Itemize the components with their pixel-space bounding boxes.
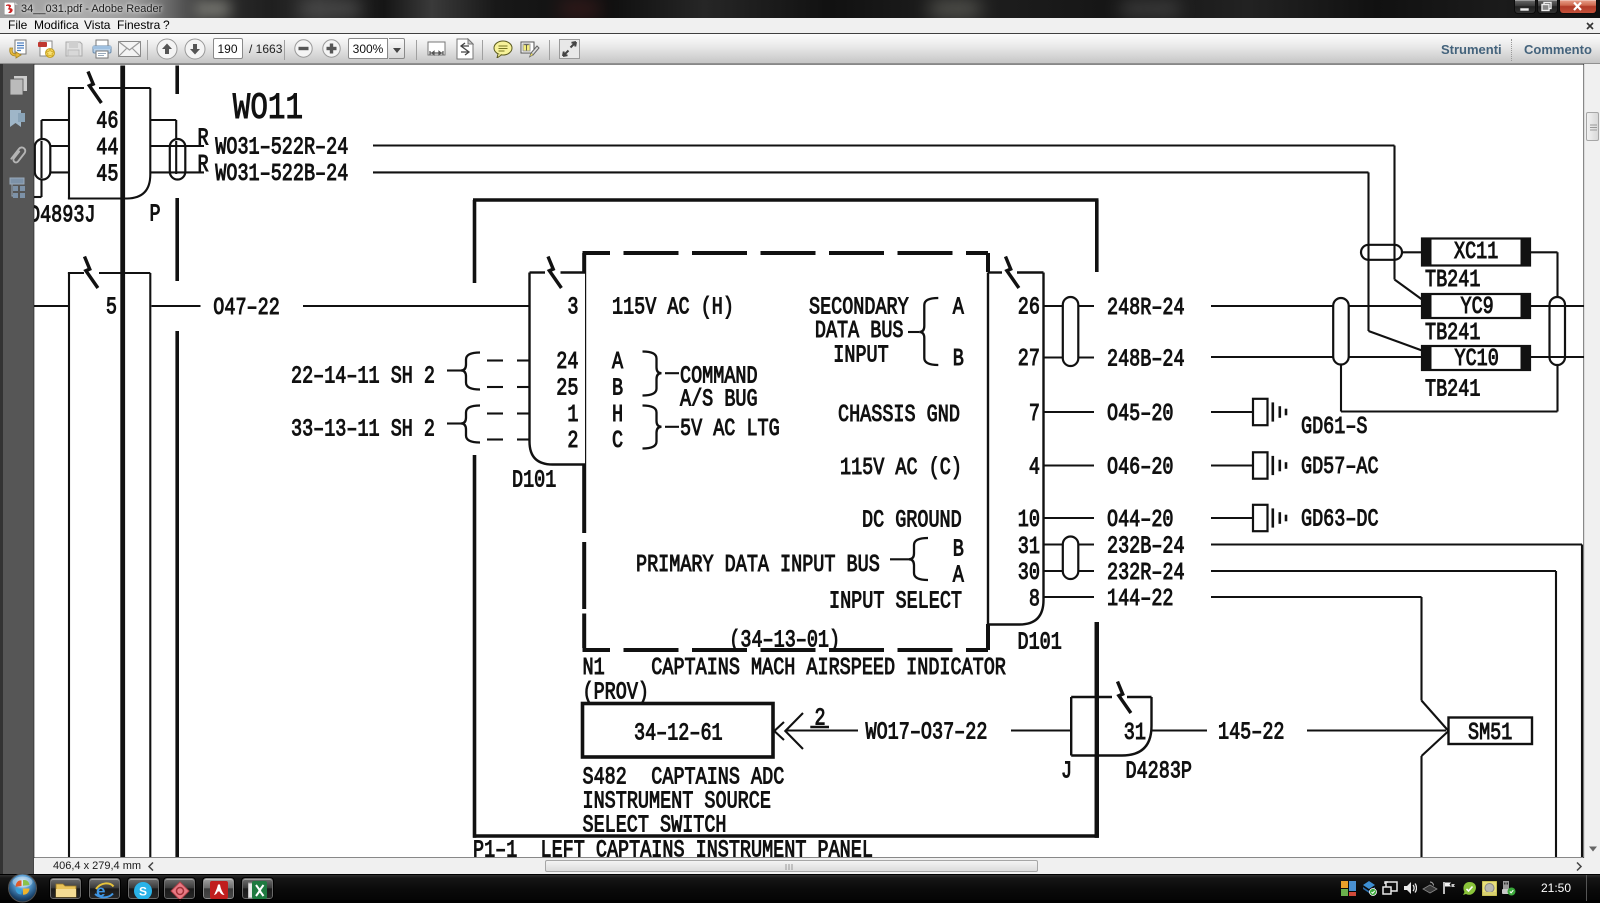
svg-text:46: 46 xyxy=(96,108,118,135)
svg-text:248R–24: 248R–24 xyxy=(1107,295,1185,322)
svg-text:34–12–61: 34–12–61 xyxy=(634,721,723,748)
svg-text:S: S xyxy=(139,885,147,899)
svg-text:DATA BUS: DATA BUS xyxy=(815,318,904,345)
svg-text:B: B xyxy=(953,346,964,373)
svg-text:A/S BUG: A/S BUG xyxy=(680,386,758,413)
svg-text:1: 1 xyxy=(567,402,578,429)
svg-text:7: 7 xyxy=(1029,401,1040,428)
svg-text:A: A xyxy=(612,349,624,376)
svg-text:PRIMARY DATA INPUT BUS: PRIMARY DATA INPUT BUS xyxy=(636,552,880,579)
svg-text:TB241: TB241 xyxy=(1425,376,1480,403)
svg-text:YC10: YC10 xyxy=(1455,346,1499,373)
svg-text:GD57–AC: GD57–AC xyxy=(1301,454,1379,481)
svg-text:D4283P: D4283P xyxy=(1126,759,1193,786)
svg-text:WO31–522B–24: WO31–522B–24 xyxy=(215,161,348,188)
svg-text:INPUT: INPUT xyxy=(833,343,888,370)
svg-text:27: 27 xyxy=(1018,346,1040,373)
svg-text:P: P xyxy=(150,201,161,228)
svg-text:SELECT SWITCH: SELECT SWITCH xyxy=(583,813,727,840)
svg-text:25: 25 xyxy=(556,376,578,403)
svg-text:O45–20: O45–20 xyxy=(1107,401,1174,428)
svg-text:248B–24: 248B–24 xyxy=(1107,347,1185,374)
svg-text:(34–13–01): (34–13–01) xyxy=(729,628,840,655)
svg-text:XC11: XC11 xyxy=(1454,239,1498,266)
svg-text:CAPTAINS MACH AIRSPEED INDICAT: CAPTAINS MACH AIRSPEED INDICATOR xyxy=(651,655,1006,682)
svg-text:A: A xyxy=(953,295,965,322)
svg-text:22–14–11 SH 2: 22–14–11 SH 2 xyxy=(291,364,435,391)
svg-text:TB241: TB241 xyxy=(1425,320,1480,347)
svg-text:O44–20: O44–20 xyxy=(1107,507,1174,534)
svg-text:D101: D101 xyxy=(512,468,556,495)
svg-text:10: 10 xyxy=(1018,507,1040,534)
svg-text:3: 3 xyxy=(567,295,578,322)
svg-text:SM51: SM51 xyxy=(1468,720,1512,747)
svg-text:INPUT SELECT: INPUT SELECT xyxy=(829,589,962,616)
svg-text:2: 2 xyxy=(815,706,826,733)
svg-text:CAPTAINS ADC: CAPTAINS ADC xyxy=(651,764,784,791)
svg-text:144–22: 144–22 xyxy=(1107,586,1174,613)
svg-text:T: T xyxy=(524,44,529,53)
svg-text:B: B xyxy=(953,537,964,564)
svg-text:31: 31 xyxy=(1018,534,1040,561)
svg-text:O47–22: O47–22 xyxy=(213,295,279,322)
svg-text:115V AC (H): 115V AC (H) xyxy=(612,295,734,322)
svg-text:YC9: YC9 xyxy=(1461,294,1494,321)
svg-text:R: R xyxy=(198,126,209,153)
svg-text:232R–24: 232R–24 xyxy=(1107,560,1185,587)
svg-text:8: 8 xyxy=(1029,587,1040,614)
svg-text:INSTRUMENT SOURCE: INSTRUMENT SOURCE xyxy=(583,789,771,816)
svg-text:D101: D101 xyxy=(1018,629,1062,656)
svg-text:WO11: WO11 xyxy=(233,88,303,130)
svg-text:44: 44 xyxy=(96,135,118,162)
svg-text:24: 24 xyxy=(556,349,578,376)
svg-text:31: 31 xyxy=(1124,720,1146,747)
svg-text:B: B xyxy=(612,376,623,403)
svg-text:C: C xyxy=(612,428,623,455)
svg-text:TB241: TB241 xyxy=(1425,267,1480,294)
svg-text:J: J xyxy=(1061,759,1072,786)
svg-text:WO17–O37–22: WO17–O37–22 xyxy=(866,720,988,747)
svg-text:30: 30 xyxy=(1018,560,1040,587)
svg-text:2: 2 xyxy=(567,428,578,455)
svg-text:GD61–S: GD61–S xyxy=(1301,414,1368,441)
svg-text:5V AC LTG: 5V AC LTG xyxy=(680,416,780,443)
svg-text:S482: S482 xyxy=(583,764,627,791)
svg-text:DC GROUND: DC GROUND xyxy=(862,508,962,535)
svg-text:115V AC (C): 115V AC (C) xyxy=(840,455,962,482)
svg-text:33–13–11 SH 2: 33–13–11 SH 2 xyxy=(291,417,435,444)
svg-text:5: 5 xyxy=(106,295,117,322)
svg-text:N1: N1 xyxy=(583,655,605,682)
svg-text:232B–24: 232B–24 xyxy=(1107,534,1185,561)
svg-text:R: R xyxy=(198,152,209,179)
svg-text:CHASSIS GND: CHASSIS GND xyxy=(838,402,960,429)
svg-text:145–22: 145–22 xyxy=(1218,720,1285,747)
svg-text:A: A xyxy=(953,563,965,590)
svg-text:H: H xyxy=(612,402,623,429)
svg-text:45: 45 xyxy=(96,162,118,189)
svg-text:4: 4 xyxy=(1029,455,1040,482)
svg-text:WO31–522R–24: WO31–522R–24 xyxy=(215,135,348,162)
svg-text:D4893J: D4893J xyxy=(29,202,96,229)
svg-text:O46–20: O46–20 xyxy=(1107,455,1174,482)
svg-text:26: 26 xyxy=(1018,295,1040,322)
svg-text:GD63–DC: GD63–DC xyxy=(1301,507,1379,534)
